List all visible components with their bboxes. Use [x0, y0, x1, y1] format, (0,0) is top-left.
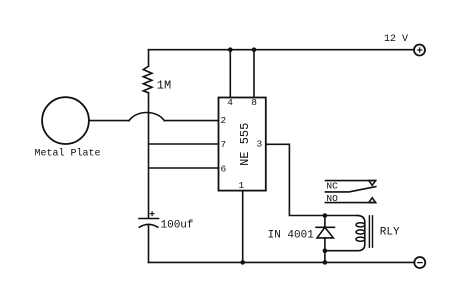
svg-text:RLY: RLY [380, 226, 400, 238]
svg-text:IN 4001: IN 4001 [268, 229, 315, 241]
svg-text:2: 2 [221, 115, 227, 126]
svg-text:1M: 1M [157, 79, 171, 93]
svg-text:NE 555: NE 555 [238, 123, 252, 166]
svg-text:4: 4 [227, 97, 233, 108]
svg-text:8: 8 [251, 97, 257, 108]
svg-text:6: 6 [221, 163, 227, 174]
svg-text:1: 1 [239, 180, 245, 191]
svg-text:100uf: 100uf [161, 220, 194, 232]
svg-text:NO: NO [326, 193, 338, 204]
svg-text:Metal Plate: Metal Plate [35, 147, 101, 159]
svg-text:NC: NC [326, 181, 338, 192]
svg-text:7: 7 [221, 139, 227, 150]
svg-text:12 V: 12 V [384, 34, 408, 45]
svg-text:3: 3 [257, 139, 263, 150]
